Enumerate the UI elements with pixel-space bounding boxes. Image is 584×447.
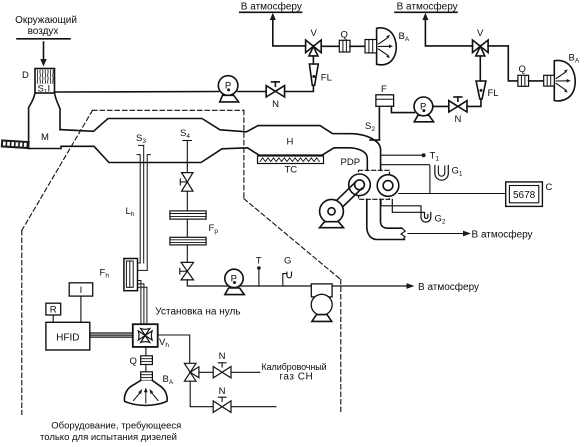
wire PDP to counter C — [399, 193, 506, 195]
wire dilution tunnel outline (bottom) — [29, 146, 368, 170]
wire FL to V (right) — [479, 56, 481, 81]
svg-text:C: C — [546, 182, 553, 193]
counter C (5678) — [506, 182, 553, 207]
svg-text:V: V — [477, 28, 484, 39]
wire P to N (right) — [433, 105, 449, 107]
svg-text:Калибровочный: Калибровочный — [262, 362, 327, 372]
wire exhaust duct below PDP to atmosphere — [367, 199, 405, 239]
flowmeter FL (left) — [309, 64, 331, 85]
svg-text:воздух: воздух — [28, 26, 59, 37]
svg-text:D: D — [22, 70, 29, 81]
pump PDP (positive displacement pump) — [341, 157, 399, 199]
burner BA (right) — [544, 53, 580, 101]
wire Q to burner (left) — [350, 45, 365, 47]
filter D (dilution air filter) — [22, 69, 55, 96]
svg-text:P: P — [231, 274, 237, 285]
svg-text:M: M — [41, 132, 49, 143]
svg-text:F: F — [381, 84, 387, 95]
svg-text:В атмосферу: В атмосферу — [418, 281, 479, 293]
wire sample line S1 to pump P — [55, 91, 219, 94]
valve N (left, with T-handle) — [266, 82, 284, 110]
wire Vh down to Q — [145, 347, 147, 356]
wire V to Q (left) — [321, 45, 339, 47]
wire F to pump P (right) — [391, 106, 414, 112]
gauge G (bottom) — [283, 256, 292, 287]
probe T1 — [381, 151, 440, 163]
svg-text:Окружающий: Окружающий — [15, 15, 77, 26]
wire P to N — [238, 91, 266, 93]
svg-text:газ СН: газ СН — [280, 372, 314, 383]
wire HFID to Vh (triple heated line) — [90, 333, 133, 337]
svg-text:только для испытания дизелей: только для испытания дизелей — [40, 432, 177, 442]
svg-text:N: N — [272, 99, 279, 110]
motor of PDP with belt — [320, 182, 363, 228]
probe S4 — [180, 128, 191, 173]
gauge G1 — [381, 165, 463, 194]
svg-text:I: I — [80, 285, 83, 296]
svg-text:TC: TC — [285, 165, 298, 176]
node ambient-air label — [15, 15, 77, 39]
svg-text:Q: Q — [341, 30, 348, 41]
svg-text:В атмосферу: В атмосферу — [241, 1, 302, 13]
svg-text:N: N — [219, 351, 226, 362]
probe S3 with heated line Lh — [126, 133, 151, 270]
valve V (left 3-way) — [306, 28, 322, 56]
wire dilution tunnel outline (top) — [60, 119, 381, 171]
pump P (left) — [218, 76, 238, 102]
blower (bottom) — [311, 284, 332, 322]
probe T (bottom) — [256, 256, 262, 287]
heat exchanger TC — [258, 156, 324, 176]
svg-text:FL: FL — [488, 88, 499, 99]
flow element Q (bottom) — [130, 356, 153, 367]
svg-text:Q: Q — [519, 64, 526, 75]
svg-text:Оборудование, требующееся: Оборудование, требующееся — [51, 421, 181, 432]
dashed enclosure boundary (diesel-only equipment) — [22, 110, 341, 414]
svg-text:N: N — [454, 114, 461, 125]
svg-text:HFID: HFID — [56, 333, 79, 344]
valve N (calibration 2) — [213, 386, 231, 413]
svg-text:V: V — [311, 28, 318, 39]
svg-text:S1I: S1I — [38, 84, 51, 96]
svg-text:T: T — [256, 256, 262, 267]
svg-text:FL: FL — [321, 73, 332, 84]
svg-text:Q: Q — [130, 356, 137, 367]
burner BA (bottom) — [124, 372, 173, 406]
svg-text:N: N — [219, 386, 226, 397]
svg-text:В атмосферу: В атмосферу — [397, 1, 458, 13]
svg-text:G: G — [284, 256, 291, 267]
svg-text:В атмосферу: В атмосферу — [472, 229, 533, 241]
flow element Q (right) — [518, 64, 529, 86]
wire V to atmosphere (left) — [273, 19, 306, 46]
svg-text:P: P — [225, 81, 231, 92]
valve on S4 line (upper) — [180, 173, 193, 192]
valve 3-way (zero setting) — [184, 363, 199, 381]
valve N (right, with T-handle) — [449, 97, 467, 125]
pump P (right) — [414, 97, 434, 122]
wire bottom sample line — [187, 280, 407, 286]
wire FL to valve V — [312, 56, 314, 64]
wire Vh to zero/span valves — [158, 335, 190, 363]
burner BA (left) — [365, 28, 410, 65]
wire ambient-air inlet arrow — [40, 42, 46, 67]
pump P (bottom) — [225, 269, 245, 294]
svg-text:H: H — [287, 137, 294, 148]
svg-text:Установка на нуль: Установка на нуль — [155, 307, 240, 318]
node funnel / dilution tunnel inlet — [29, 93, 60, 149]
flow element Q (left) — [339, 30, 350, 53]
svg-text:5678: 5678 — [513, 190, 536, 201]
valve on S4 line (lower) — [180, 262, 194, 280]
valve Vh (4-way, maltese cross) — [133, 324, 170, 349]
svg-text:PDP: PDP — [341, 157, 361, 168]
filter F — [376, 84, 394, 106]
heated filter Fh — [100, 259, 148, 325]
wire N to FL riser (right) — [467, 99, 481, 107]
gauge G2 pipe — [381, 199, 446, 225]
wire Q to burner (right) — [529, 80, 544, 82]
svg-text:P: P — [420, 102, 426, 113]
wire N to FL riser — [285, 85, 314, 91]
sample probe S2 — [365, 106, 379, 140]
flowmeter FL (right) — [476, 81, 498, 99]
svg-text:R: R — [50, 304, 57, 315]
filter Fp (pair) — [170, 211, 218, 245]
node M exhaust pipe (checkered bar) — [1, 139, 30, 149]
wire V to Q (right) — [488, 46, 518, 81]
analyzer HFID with R and I modules — [46, 283, 93, 350]
wire down to calibration valve N2 — [190, 381, 213, 407]
valve N (calibration 1) — [213, 351, 231, 378]
wire V to atmosphere (right) — [425, 19, 472, 46]
wire to calibration valve N1 — [199, 371, 213, 373]
valve V (right 3-way) — [473, 28, 489, 56]
